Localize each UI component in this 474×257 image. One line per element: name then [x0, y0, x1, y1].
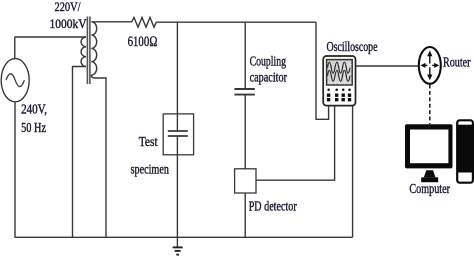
svg-text:Test: Test	[139, 135, 158, 150]
svg-text:Oscilloscope: Oscilloscope	[327, 39, 378, 54]
svg-text:6100Ω: 6100Ω	[128, 34, 158, 50]
svg-text:50 Hz: 50 Hz	[21, 121, 46, 136]
svg-text:Router: Router	[443, 54, 471, 69]
svg-text:240V,: 240V,	[21, 101, 47, 116]
svg-text:specimen: specimen	[131, 162, 169, 177]
svg-text:220V/: 220V/	[55, 0, 81, 14]
svg-text:PD detector: PD detector	[249, 198, 297, 213]
svg-text:Computer: Computer	[409, 181, 450, 196]
svg-text:capacitor: capacitor	[250, 70, 288, 85]
svg-text:1000kV: 1000kV	[50, 16, 88, 31]
svg-text:Coupling: Coupling	[250, 54, 287, 69]
